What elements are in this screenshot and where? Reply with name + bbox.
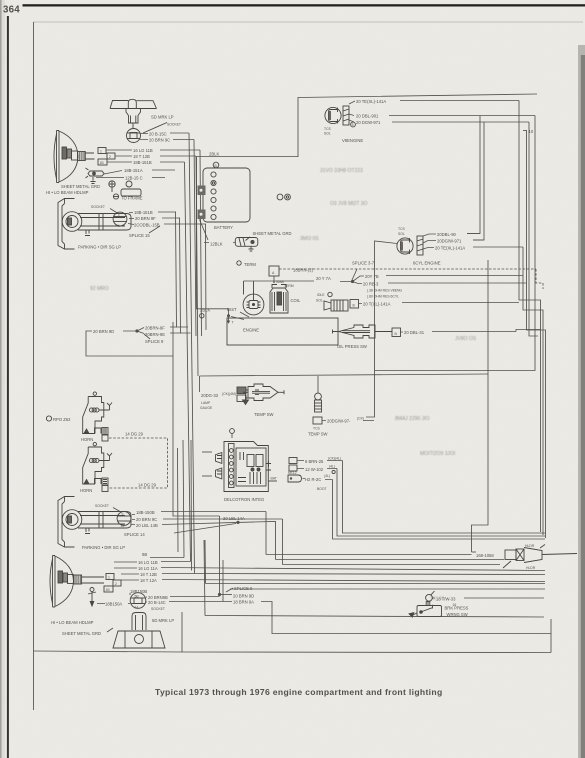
left black rule [7,16,9,758]
wire 20 BRN 9C [140,139,194,141]
svg-text:20DBL-90: 20DBL-90 [437,232,457,237]
wire 20DG/W-971 (6cyl) [423,240,484,243]
svg-text:H2 R-2C: H2 R-2C [305,477,321,482]
svg-text:SPLICE 3-7: SPLICE 3-7 [352,261,375,266]
stub label 10 [523,130,527,132]
svg-text:(.80 OHM RES 6CYL: (.80 OHM RES 6CYL [367,295,399,299]
svg-text:18 T 12B: 18 T 12B [133,154,150,159]
label SPLICE 14 [174,524,236,534]
wire 20 BRN 9C (lower) [132,518,283,521]
svg-text:HI • LO BEAM HDLMP: HI • LO BEAM HDLMP [51,620,94,625]
battery terminal top [198,186,206,196]
svg-text:12BLK: 12BLK [210,242,223,247]
svg-text:5D MRK LP: 5D MRK LP [152,618,174,623]
connector pin 2 (upper headlamp) [107,153,115,159]
TCS temp switch [317,376,319,393]
svg-text:1: 1 [108,576,110,580]
svg-text:20 Y 7A: 20 Y 7A [316,276,331,281]
headlamp ground pigtail [86,168,105,184]
right rail vertical 1 [519,101,541,533]
svg-text:1: 1 [100,150,102,154]
wire 20 BRN 9F [129,217,180,220]
sheet metal grd symbol (battery) [235,237,257,251]
power feed wire to right rail [298,94,537,157]
svg-text:18 T 12B: 18 T 12B [140,572,157,577]
svg-text:20 BRN 9F: 20 BRN 9F [135,216,156,221]
svg-text:20 BRN 9D: 20 BRN 9D [233,594,254,599]
wire 20 DGW-971 (V8) [349,120,529,122]
brake switch circle [426,591,435,601]
svg-text:(CK)(4L): (CK)(4L) [328,457,341,461]
svg-text:20 LBL 14A: 20 LBL 14A [223,516,245,521]
svg-text:14: 14 [121,524,125,528]
label RPO Z62 [46,416,51,421]
svg-text:16 LG 11B: 16 LG 11B [133,148,153,153]
svg-text:HI • LO BEAM HDLMP: HI • LO BEAM HDLMP [46,190,89,195]
bottom frame lines [205,616,544,618]
svg-text:(CK): (CK) [357,417,364,421]
svg-text:20Y 7B: 20Y 7B [365,274,379,279]
svg-text:DELCOTRON INTEG: DELCOTRON INTEG [224,497,264,502]
wire 18B-151B (upper) [107,161,185,163]
svg-text:2: 2 [118,213,120,217]
right rail vertical 4 [529,122,538,336]
svg-text:SPLICE 9: SPLICE 9 [145,339,164,344]
splice 9 upper junction [135,329,138,332]
right page edge shadow [578,45,585,758]
thin frame left line [33,22,35,710]
wire 12 W-102 [297,468,337,470]
svg-text:DIST: DIST [227,307,237,312]
wire 20DBL-90 (6cyl) [423,234,480,237]
svg-text:18B-151B: 18B-151B [133,160,152,165]
svg-text:SOL: SOL [398,232,405,236]
wire 2BLK from battery [197,157,299,191]
splice 15 [149,226,160,233]
svg-text:18 BRN 9A: 18 BRN 9A [233,600,254,605]
ground to frame symbol [109,181,141,199]
headlamp dimmer connector HLDR [503,545,577,569]
trunk wire verticals (left trunk) [176,133,207,616]
svg-text:SD MRK LP: SD MRK LP [151,115,174,120]
svg-text:TCS: TCS [398,227,406,231]
svg-text:SHEET METAL GRD: SHEET METAL GRD [253,231,292,236]
horn 1 [83,392,112,441]
wire 20 BRN 9D (lower) [220,594,233,596]
svg-text:SOCKET: SOCKET [95,504,109,508]
right rail vertical 2 [523,247,543,535]
svg-text:18B-151A: 18B-151A [124,168,143,173]
svg-text:2CODBL-15B: 2CODBL-15B [134,223,160,228]
socket SD MRK LP (top) [127,129,141,143]
svg-text:SOL: SOL [316,299,323,303]
wire 2BLK vertical to distributor [197,190,229,315]
ground arrow symbol (lower headlamp) [88,588,96,607]
TCS drops to bundle [333,461,546,540]
svg-text:BAT: BAT [271,477,277,481]
svg-text:BATTERY: BATTERY [214,225,233,230]
GHOST BLEEDTHROUGH [90,168,477,602]
ground dots pair [277,194,283,200]
drop verticals from parking wires [266,512,283,565]
battery cells [211,172,216,220]
wire 20 BRN9B [146,596,220,599]
distributor [243,281,264,315]
svg-text:20 T(XL)-141A: 20 T(XL)-141A [363,302,391,307]
wire 18 T 12B (lower) [121,574,545,575]
svg-text:2: 2 [115,582,117,586]
svg-text:HLDR: HLDR [526,566,536,570]
horizontal rail y375 [200,374,489,376]
svg-text:18B-151B: 18B-151B [134,210,153,215]
svg-text:18B150B: 18B150B [130,589,147,594]
mid trunk verticals [202,452,212,476]
svg-text:JV8O OS: JV8O OS [455,336,477,342]
wire 18 T 12B (upper) [115,155,196,157]
svg-text:20 BRN 9C: 20 BRN 9C [149,138,170,143]
label SPLICE 9 (lower) [226,588,233,592]
svg-text:SHEET METAL GRD: SHEET METAL GRD [62,631,101,636]
svg-text:8MAJ 2290 JIO: 8MAJ 2290 JIO [395,416,430,422]
left page edge shadow [0,0,5,758]
svg-text:HORN: HORN [80,488,92,493]
CENTER ENGINE [227,101,546,553]
svg-text:SPLICE 9: SPLICE 9 [234,586,253,591]
svg-text:TERM: TERM [284,284,294,288]
svg-text:2: 2 [109,155,111,159]
terminal A box [269,266,279,276]
dashed wire 18BRN-(2) [279,269,543,289]
svg-text:Typical 1973 through 1976 engi: Typical 1973 through 1976 engine compart… [155,687,443,697]
svg-text:10: 10 [529,129,534,134]
label SPLICE 9 (upper) [144,334,150,339]
svg-text:6CYL ENGINE: 6CYL ENGINE [413,261,441,266]
TCS solenoid 6CYL [397,236,423,255]
wire 20 RB-3 [353,282,527,284]
wire 18B-151A [104,170,175,174]
svg-text:20 DGW-971: 20 DGW-971 [356,120,381,125]
terminal B box (idle) [350,300,359,309]
svg-text:14 DG 29: 14 DG 29 [138,483,157,488]
temp switch (upper) [243,384,285,405]
socket circle parking lower [117,512,131,526]
wire 18B-150A with ground [97,603,130,605]
svg-text:12B-15 C: 12B-15 C [125,176,143,181]
svg-text:MOITI2O9 3JOI: MOITI2O9 3JOI [420,451,455,457]
wire 18 T/W-33 line [433,597,545,599]
connector pin 1B (upper headlamp) [98,159,107,165]
CAPTION [155,687,443,697]
long bottom line [34,651,183,652]
splice 3-7 [352,269,357,280]
svg-text:OIL PRESS SW: OIL PRESS SW [337,344,367,349]
connector pin 1 (upper headlamp) [98,148,106,154]
wire 20 B-14C [146,601,223,604]
circled 5 [351,122,356,127]
svg-text:BOOT: BOOT [317,487,327,491]
wire 16 LG 11A (long) [114,568,545,571]
lamp socket circle small [126,181,132,187]
svg-text:SPLICE 15: SPLICE 15 [129,233,150,238]
coil [270,285,288,314]
wire 168-1058 to headlamp dimmer [472,551,477,553]
wire corner 20DGW-971 down [473,122,484,240]
TOPLEFT [46,99,206,615]
wire from TCS 6cyl to left [366,241,397,417]
svg-text:(.38 OHM RES V8ENG: (.38 OHM RES V8ENG [367,289,402,293]
socket circle parking upper [113,212,127,226]
svg-text:PARKING • DIR SG LP: PARKING • DIR SG LP [82,545,125,550]
svg-text:3MI3 0S: 3MI3 0S [300,236,319,242]
svg-text:HORN: HORN [81,437,93,442]
long right vertical to HLDR [472,260,489,552]
BATTERY AREA [197,94,538,318]
wire 12BLK battery ground [200,220,236,243]
svg-text:(4L): (4L) [324,474,330,478]
svg-text:TERM: TERM [244,262,256,267]
splice 9 lower junction [218,593,221,596]
svg-text:SOCKET: SOCKET [91,205,105,209]
wire 18B-150B (parking lower) [132,512,266,515]
wire 20 Y 7A [244,280,352,283]
svg-text:SOCKET: SOCKET [151,607,165,611]
svg-text:20 RB-3: 20 RB-3 [363,282,379,287]
idle solenoid [324,300,348,311]
svg-text:SPLICE 14: SPLICE 14 [124,532,145,537]
wire 20 TE(XL)-141A (V8) [349,101,519,105]
engine ground tick [228,317,230,322]
wire 20Y 7B [353,276,524,282]
wire 12B-15 C [96,177,165,179]
parking lamp upper body [58,199,131,250]
socket marker lower [130,593,146,609]
svg-text:1B: 1B [100,161,105,165]
svg-text:20BRN-9E: 20BRN-9E [145,332,165,337]
dashed wire 14 DG 29 (upper) [109,438,168,488]
svg-text:20 DBL-31: 20 DBL-31 [404,330,425,335]
svg-text:31VO 33H8 OT223: 31VO 33H8 OT223 [320,168,363,174]
svg-text:(CK)(4M): (CK)(4M) [222,392,236,396]
hi-lo beam headlamp (upper) [54,131,95,183]
svg-text:9B: 9B [142,552,147,557]
delcotron body [216,442,278,492]
svg-text:20 TE(XL)-141A: 20 TE(XL)-141A [356,99,386,104]
wire 20 TE(XL)-141A (6cyl) [423,247,523,249]
wire 18B-150B (marker) [129,593,131,595]
svg-text:W2 92: W2 92 [430,596,445,602]
bundle wires lower [206,584,546,590]
MIDLOW [46,322,488,516]
svg-text:NE12: NE12 [288,471,297,475]
battery terminal bottom [198,210,206,220]
wire 20 T(XL)-141A [359,303,520,304]
wire 20 DBL-31 [401,330,541,333]
svg-text:20DG/W-97-: 20DG/W-97- [327,419,351,424]
wire 20BRN-9E [137,331,191,334]
wire 18 T 12A (long) [121,580,545,582]
oil pressure switch [333,325,393,338]
terminal E wires [289,458,297,472]
svg-text:12 W-102: 12 W-102 [305,467,324,472]
svg-text:BRK PRESS: BRK PRESS [445,606,469,611]
wire 20 B-15C [141,132,190,135]
BOTTOM [34,461,578,653]
svg-text:(4L): (4L) [329,465,335,469]
wire 20DG/W-97 (TCS temp) [322,420,374,422]
wire 20 BRN 9D (to left and down) [86,322,220,516]
svg-text:20BRN-9F: 20BRN-9F [145,326,165,331]
svg-text:168-1058: 168-1058 [476,553,494,558]
connector pin 1B (lower headlamp) [104,586,113,592]
svg-text:6 BRN-25: 6 BRN-25 [305,459,324,464]
wire corner 20DBL-901 down [467,116,480,234]
svg-text:TEMP SW: TEMP SW [308,432,328,437]
svg-text:SOCKET: SOCKET [167,123,181,127]
svg-text:SOL: SOL [324,132,331,136]
svg-text:18BRN-(2): 18BRN-(2) [293,268,314,273]
connector pin 2 (lower headlamp) [113,580,121,586]
svg-text:TEMP SW: TEMP SW [254,412,274,417]
svg-text:20DG/W-971: 20DG/W-971 [437,239,462,244]
svg-text:20 DBL-901: 20 DBL-901 [356,114,379,119]
svg-text:20 B-15C: 20 B-15C [149,132,167,137]
hi-lo beam headlamp (lower) [50,556,104,608]
svg-text:5B: 5B [135,595,140,599]
svg-text:20 BRN 9D: 20 BRN 9D [93,329,114,334]
svg-text:20 TE(XL)-141A: 20 TE(XL)-141A [435,246,465,251]
svg-text:RPO Z62: RPO Z62 [53,417,71,422]
svg-text:GAUGE: GAUGE [200,406,213,410]
svg-text:14 DG 29: 14 DG 29 [125,432,144,437]
svg-text:SHEET METAL GRD: SHEET METAL GRD [61,184,100,189]
wire 18 BRN 9A [223,602,551,634]
svg-text:LAMP: LAMP [201,401,211,405]
svg-text:16 LG 11A: 16 LG 11A [138,566,158,571]
svg-text:TCS: TCS [313,427,321,431]
side marker lamp (top) body [110,99,167,133]
marker lamp lower body [113,613,165,649]
svg-text:18 T 12A: 18 T 12A [140,578,157,583]
svg-text:18B-150B: 18B-150B [136,510,155,515]
svg-text:20 LBL 14B: 20 LBL 14B [136,523,158,528]
wire 16 LG 11B (lower) [114,561,191,564]
battery body [203,168,250,222]
svg-text:20DG-33: 20DG-33 [201,393,219,398]
svg-text:364: 364 [3,5,20,16]
wire 6 BRN-25 [297,460,343,462]
terminal B box (oil press) [392,328,401,337]
svg-text:92 MRO: 92 MRO [90,286,109,292]
svg-text:18B150A: 18B150A [105,602,122,607]
right rail vertical 3 [527,131,546,539]
svg-text:IDLE: IDLE [317,293,325,297]
horn 2 [83,442,112,491]
wire 20 LBL 14B / splice 14 / 20 LBL 14A [131,521,276,524]
svg-text:1: 1 [118,224,120,228]
circled 3 above delcotron [230,429,235,434]
wire 18B-151B (parking) [129,211,176,214]
wire H2 R-2C with boot [288,475,302,482]
wire 16 LG 11B (upper) [106,149,200,151]
svg-text:5: 5 [352,123,354,127]
svg-text:O3 JV8 MI2T 3O: O3 JV8 MI2T 3O [330,201,368,207]
svg-text:1B: 1B [106,588,111,592]
TCS solenoid V8 [325,106,349,125]
parking lamp lower body [58,497,131,548]
connector pin 1 (lower headlamp) [106,574,114,580]
svg-text:2BLK: 2BLK [209,152,219,157]
brake pressure warning switch [409,601,442,617]
svg-text:PARKING • DIR SG LP: PARKING • DIR SG LP [78,245,121,250]
wires to HLDR area [266,555,504,565]
battery polarity mark [213,162,219,168]
top black rule [23,4,585,6]
engine block [227,318,338,345]
svg-text:T: T [232,321,234,325]
svg-text:TO FRAME: TO FRAME [121,196,143,201]
wire 20DG-33 [199,376,201,392]
svg-text:16 LG 11B: 16 LG 11B [138,560,158,565]
svg-text:9: 9 [122,513,124,517]
svg-text:V8ENGINE: V8ENGINE [342,138,363,143]
svg-text:2BLK: 2BLK [200,308,210,313]
wire 20 DBL-15B [128,224,206,225]
rail 535 vertical [375,116,536,371]
wire 20BRN-9F [137,327,188,331]
svg-text:20 B-14C: 20 B-14C [148,600,166,605]
TERM circle symbol [237,261,241,265]
lamp gauge connector [237,387,249,402]
thin frame top line [33,21,583,23]
svg-text:ENGINE: ENGINE [243,328,259,333]
svg-text:TCS: TCS [324,127,332,131]
svg-text:COIL: COIL [291,298,301,303]
wire 20 DBL-901 (V8) [349,114,535,116]
svg-text:HLDR: HLDR [525,544,535,548]
svg-text:20 BRN 9C: 20 BRN 9C [136,517,157,522]
svg-text:14: 14 [135,606,139,610]
